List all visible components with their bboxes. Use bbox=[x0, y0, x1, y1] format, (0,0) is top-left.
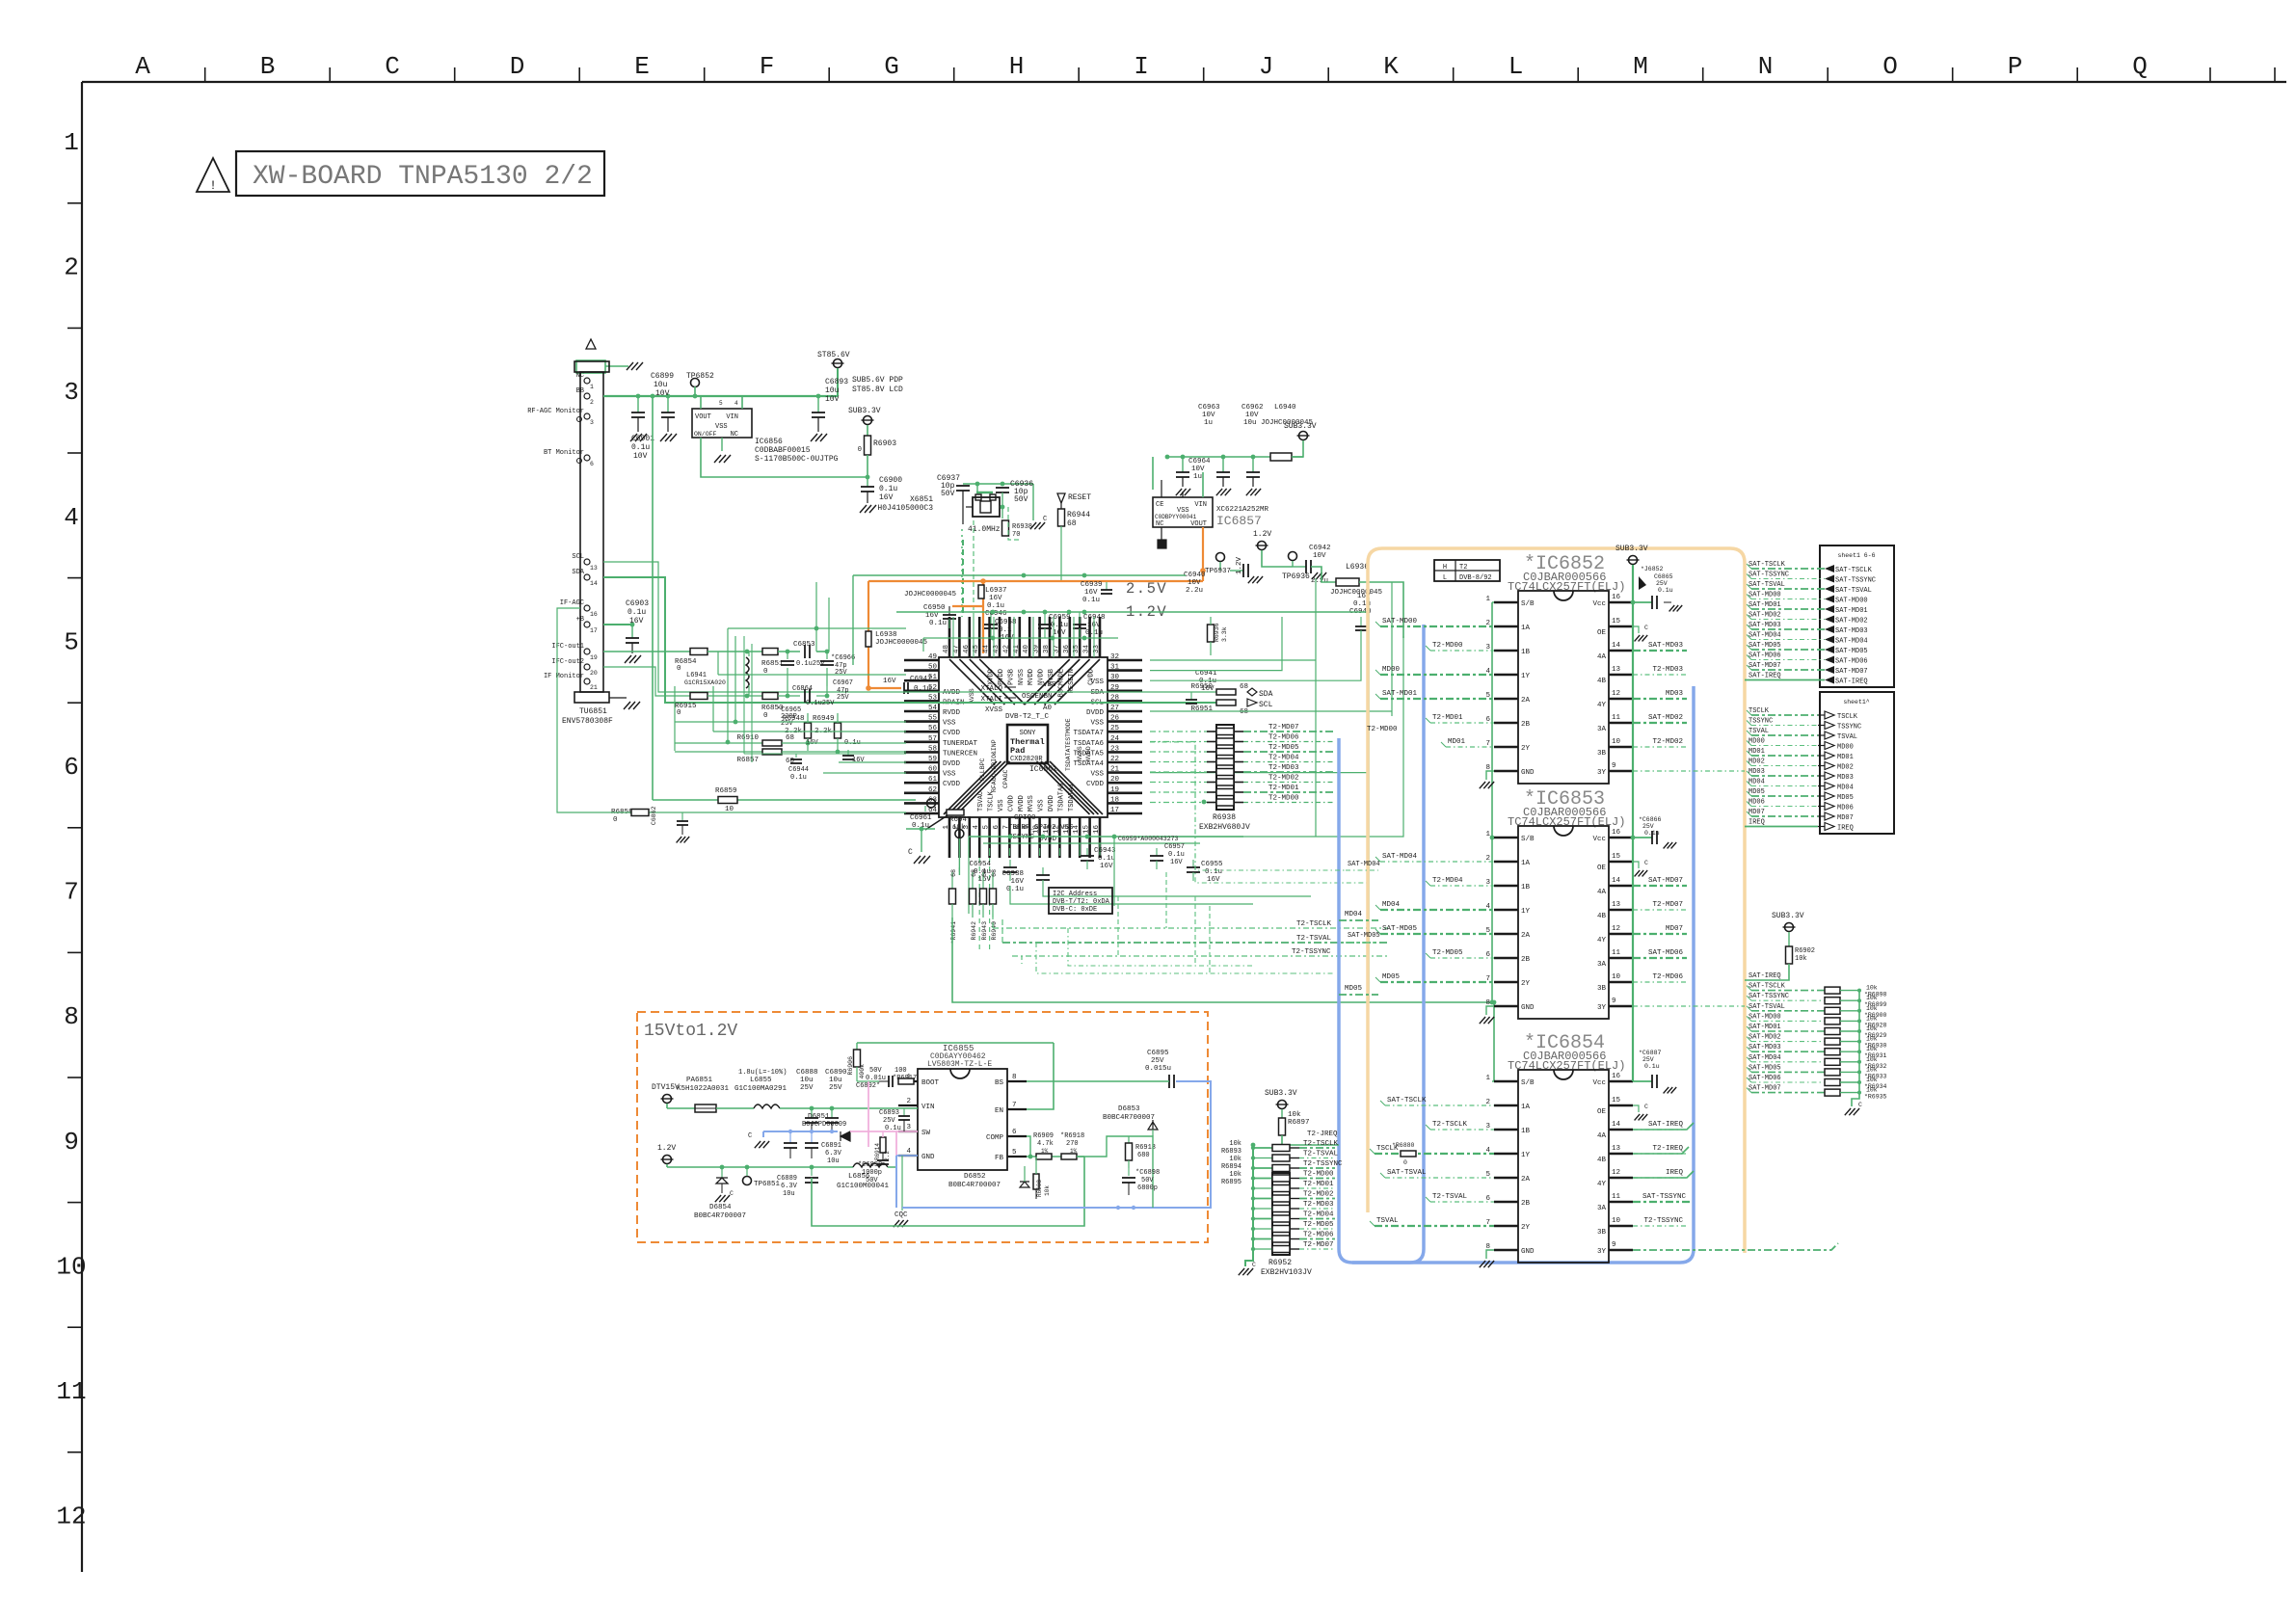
wire BS-EN loop top bbox=[857, 1042, 1054, 1044]
svg-text:SDA: SDA bbox=[1259, 690, 1273, 699]
svg-text:B0BC4R700007: B0BC4R700007 bbox=[948, 1182, 1001, 1189]
sheet1 box TS (to sheet) bbox=[1820, 692, 1894, 834]
svg-text:2Y: 2Y bbox=[1521, 980, 1531, 988]
blue wires SW filter bbox=[763, 1131, 838, 1132]
svg-text:TSDATATESTMODE: TSDATATESTMODE bbox=[1065, 718, 1072, 771]
connector pin 2 BB bbox=[584, 393, 590, 399]
svg-text:3B: 3B bbox=[1597, 750, 1607, 758]
svg-text:41.0MHz: 41.0MHz bbox=[968, 525, 1001, 534]
capacitor C6888 bbox=[811, 1108, 813, 1118]
svg-text:68: 68 bbox=[950, 869, 957, 877]
svg-text:680: 680 bbox=[1137, 1152, 1150, 1159]
svg-text:0.1u: 0.1u bbox=[631, 443, 650, 452]
svg-text:DTV15V: DTV15V bbox=[652, 1083, 680, 1092]
pin mark RF-AGC bbox=[577, 417, 582, 422]
svg-text:62: 62 bbox=[928, 786, 937, 794]
net SAT-TSVAL (sheet arrow) bbox=[1825, 585, 1834, 593]
inductor L6856 bbox=[853, 1163, 888, 1167]
svg-text:R6906: R6906 bbox=[847, 1056, 854, 1076]
svg-text:0.1u25V: 0.1u25V bbox=[806, 700, 835, 707]
svg-text:CE: CE bbox=[1156, 501, 1163, 509]
connector pin 16 IF-AGC bbox=[584, 605, 590, 611]
wire MD07 from IC6853 bbox=[1633, 933, 1687, 935]
svg-text:VIN: VIN bbox=[1194, 501, 1207, 509]
svg-text:N: N bbox=[1758, 52, 1774, 81]
svg-text:MD03: MD03 bbox=[1666, 690, 1684, 698]
svg-text:VSS: VSS bbox=[998, 799, 1005, 811]
svg-text:0.1u: 0.1u bbox=[987, 602, 1004, 610]
test point TP6937 bbox=[1216, 553, 1225, 562]
svg-text:MD00: MD00 bbox=[1749, 738, 1765, 746]
svg-text:38: 38 bbox=[1043, 645, 1051, 653]
svg-text:0.1: 0.1 bbox=[999, 626, 1012, 634]
capacitor C6901 bbox=[637, 396, 639, 412]
svg-text:ENV5780308F: ENV5780308F bbox=[562, 717, 613, 726]
svg-text:3: 3 bbox=[590, 419, 594, 426]
svg-text:C: C bbox=[1644, 625, 1648, 631]
svg-text:S-1170B500C-0UJTPG: S-1170B500C-0UJTPG bbox=[755, 455, 839, 464]
svg-text:C6889: C6889 bbox=[777, 1175, 797, 1183]
wire S/B bus vertical bbox=[1491, 602, 1493, 1002]
wire SAT-MD00 to IC6852 bbox=[1380, 625, 1494, 627]
svg-text:25: 25 bbox=[1110, 725, 1120, 732]
resistor R6918 270 bbox=[1061, 1154, 1077, 1159]
vertical green stubs left cluster bbox=[717, 652, 719, 675]
svg-text:SAT-MD07: SAT-MD07 bbox=[1749, 662, 1781, 670]
svg-text:NVSS: NVSS bbox=[1077, 746, 1083, 761]
svg-text:D6854: D6854 bbox=[709, 1204, 732, 1211]
svg-text:0: 0 bbox=[858, 446, 862, 454]
resistor *R6935 net SAT-MD07 bbox=[1751, 1092, 1825, 1094]
svg-text:16V: 16V bbox=[1170, 859, 1183, 866]
svg-text:1B: 1B bbox=[1521, 884, 1531, 891]
svg-text:MD07: MD07 bbox=[1837, 814, 1854, 822]
svg-text:10V: 10V bbox=[1245, 412, 1259, 419]
svg-text:R6936: R6936 bbox=[1214, 623, 1220, 642]
svg-text:SAT-MD06: SAT-MD06 bbox=[1648, 949, 1684, 957]
wire right-side rails bbox=[1150, 659, 1316, 661]
svg-text:4Y: 4Y bbox=[1597, 1181, 1607, 1188]
svg-text:1%: 1% bbox=[1041, 1148, 1049, 1155]
IC6854 pin 8 GND bbox=[1494, 1249, 1518, 1251]
svg-text:32: 32 bbox=[1110, 653, 1119, 661]
resistor R6936 70 bbox=[1002, 520, 1009, 536]
svg-text:2A: 2A bbox=[1521, 697, 1531, 705]
svg-text:16V: 16V bbox=[1201, 685, 1215, 693]
power terminal SUB3.3V (R6897) bbox=[1278, 1101, 1287, 1109]
svg-text:TSSYNC: TSSYNC bbox=[1749, 718, 1773, 726]
svg-text:70: 70 bbox=[1012, 531, 1020, 539]
wire +B rail y=411 bbox=[603, 395, 838, 397]
IC6854 pin 4 1Y bbox=[1494, 1153, 1518, 1155]
svg-text:T2-MD07: T2-MD07 bbox=[1652, 901, 1683, 909]
svg-text:T2-TSSYNC: T2-TSSYNC bbox=[1643, 1217, 1683, 1225]
svg-text:4: 4 bbox=[906, 1148, 911, 1156]
svg-text:OE: OE bbox=[1597, 865, 1607, 872]
test point TP6852 bbox=[691, 379, 700, 387]
svg-text:+B: +B bbox=[576, 616, 584, 624]
svg-text:GND: GND bbox=[921, 1154, 935, 1161]
connector pin 21 IF Monitor bbox=[584, 678, 590, 684]
svg-text:6800p: 6800p bbox=[1137, 1184, 1158, 1192]
svg-text:C6941: C6941 bbox=[1195, 670, 1217, 678]
svg-text:*R6918: *R6918 bbox=[1060, 1132, 1084, 1140]
svg-text:SUB3.3V: SUB3.3V bbox=[848, 407, 881, 415]
svg-text:4A: 4A bbox=[1597, 653, 1607, 661]
svg-text:C6891: C6891 bbox=[821, 1142, 841, 1150]
svg-text:14: 14 bbox=[1612, 1121, 1621, 1129]
resistor stack row T2-TSSYNC bbox=[1253, 1167, 1272, 1169]
svg-text:1Y: 1Y bbox=[1521, 673, 1531, 680]
svg-text:MD05: MD05 bbox=[1837, 794, 1854, 802]
svg-text:SAT-MD00: SAT-MD00 bbox=[1749, 1013, 1781, 1021]
svg-text:1.2V: 1.2V bbox=[1236, 556, 1243, 574]
svg-text:13: 13 bbox=[1612, 666, 1621, 674]
svg-text:0.1u: 0.1u bbox=[1205, 868, 1222, 876]
IC6852 OE ground bbox=[1633, 626, 1639, 633]
svg-text:XVDD: XVDD bbox=[988, 669, 996, 685]
svg-text:30: 30 bbox=[1110, 674, 1120, 681]
svg-text:C6900: C6900 bbox=[879, 476, 902, 485]
svg-text:R6894: R6894 bbox=[1221, 1163, 1241, 1171]
svg-text:SAT-TSVAL: SAT-TSVAL bbox=[1835, 587, 1872, 595]
capacitor C6968 47p bbox=[826, 652, 828, 659]
svg-text:SAT-MD04: SAT-MD04 bbox=[1749, 632, 1781, 640]
svg-text:44: 44 bbox=[983, 644, 991, 653]
svg-text:H: H bbox=[1009, 52, 1025, 81]
svg-text:SAT-MD01: SAT-MD01 bbox=[1749, 1024, 1781, 1031]
svg-text:C: C bbox=[1252, 1262, 1256, 1268]
3Y dashed IC6853 bbox=[1633, 1005, 1745, 1007]
fuse PA6851 bbox=[695, 1104, 716, 1112]
svg-text:PVDD: PVDD bbox=[998, 669, 1005, 685]
svg-text:S/B: S/B bbox=[1521, 836, 1535, 843]
svg-text:1Y: 1Y bbox=[1521, 908, 1531, 916]
svg-text:10k: 10k bbox=[1866, 1077, 1878, 1083]
wire rows to left pins bbox=[718, 674, 906, 676]
wire 1.2V rail bbox=[896, 611, 1369, 613]
svg-text:TSVAC: TSVAC bbox=[977, 791, 985, 811]
svg-text:T2-JREQ: T2-JREQ bbox=[1307, 1131, 1338, 1138]
green bus mesh below IC bbox=[968, 837, 970, 914]
ladder ground bus bbox=[1852, 990, 1859, 1106]
svg-text:16: 16 bbox=[1612, 594, 1621, 601]
svg-text:IREQ: IREQ bbox=[1666, 1169, 1684, 1177]
svg-text:2: 2 bbox=[64, 253, 79, 282]
IC6854 pin 6 2B bbox=[1494, 1201, 1518, 1203]
svg-text:BS: BS bbox=[995, 1079, 1004, 1087]
capacitor C6889 pair bbox=[811, 1131, 813, 1143]
svg-text:1A: 1A bbox=[1521, 1104, 1531, 1111]
reset net label RESET bbox=[1057, 493, 1065, 503]
net TSSYNC (sheet arrow) bbox=[1825, 722, 1834, 730]
svg-text:IC6857: IC6857 bbox=[1216, 514, 1262, 528]
svg-text:1: 1 bbox=[1485, 831, 1490, 838]
svg-text:10k: 10k bbox=[1866, 1036, 1878, 1043]
svg-text:SAT-MD05: SAT-MD05 bbox=[1835, 648, 1868, 655]
svg-text:9: 9 bbox=[1612, 998, 1616, 1005]
svg-text:TP6936: TP6936 bbox=[1282, 572, 1310, 581]
svg-text:25V: 25V bbox=[1151, 1057, 1164, 1065]
svg-text:59: 59 bbox=[928, 756, 937, 763]
svg-text:0.1u: 0.1u bbox=[879, 485, 897, 493]
wire T2-MD02 from IC6852 bbox=[1633, 746, 1687, 748]
svg-text:SAT-TSCLK: SAT-TSCLK bbox=[1387, 1097, 1427, 1104]
svg-text:1.8u(L=-10%): 1.8u(L=-10%) bbox=[738, 1069, 787, 1077]
svg-text:DVDD: DVDD bbox=[943, 760, 961, 768]
svg-text:T2-MD06: T2-MD06 bbox=[1652, 973, 1683, 981]
wire T2-MD05 to IC6853 bbox=[1430, 957, 1494, 959]
capacitor C6940 2.2u bbox=[1230, 570, 1243, 572]
svg-text:400k: 400k bbox=[859, 1064, 866, 1079]
svg-text:T2-MD00: T2-MD00 bbox=[1268, 795, 1299, 803]
svg-text:G1CR15XA020: G1CR15XA020 bbox=[684, 679, 726, 686]
wire bus below IC bbox=[969, 836, 1243, 838]
IC IC6854 body bbox=[1518, 1070, 1609, 1263]
resistor pack row T2-MD01 bbox=[1253, 1187, 1272, 1189]
svg-text:T2-IREQ: T2-IREQ bbox=[1652, 1145, 1683, 1153]
svg-text:L: L bbox=[1508, 52, 1524, 81]
wire 2.5V rail bbox=[853, 574, 1186, 576]
svg-text:10u: 10u bbox=[825, 386, 840, 395]
title box XW-BOARD TNPA5130 2/2 bbox=[236, 151, 604, 196]
regulator IC6855 body bbox=[918, 1069, 1007, 1170]
svg-text:T2-MD05: T2-MD05 bbox=[1268, 744, 1299, 752]
svg-text:60: 60 bbox=[928, 766, 938, 774]
svg-text:4Y: 4Y bbox=[1597, 937, 1607, 945]
wire T2-TSCLK to IC6854 bbox=[1430, 1129, 1494, 1131]
svg-text:10k: 10k bbox=[1866, 1087, 1878, 1094]
svg-text:SAT-MD06: SAT-MD06 bbox=[1749, 1075, 1781, 1082]
svg-text:56: 56 bbox=[928, 725, 938, 732]
blue wire C6895 to bottom bbox=[902, 1081, 1211, 1208]
capacitor C6890 bbox=[831, 1108, 833, 1118]
svg-text:1: 1 bbox=[943, 825, 950, 830]
wire IFC-out1 row bbox=[603, 651, 690, 652]
svg-text:sheet1 6-6: sheet1 6-6 bbox=[1837, 552, 1875, 559]
svg-text:AVDD: AVDD bbox=[943, 689, 961, 697]
svg-text:25V: 25V bbox=[837, 694, 849, 702]
svg-text:2B: 2B bbox=[1521, 721, 1531, 729]
wire TSCLK to IC6854 bbox=[1375, 1153, 1494, 1155]
regulator IC6856 bbox=[692, 409, 752, 438]
connector pin 17 +B bbox=[584, 622, 590, 627]
svg-text:15: 15 bbox=[1612, 618, 1621, 625]
IC6852 pin 4 1Y bbox=[1494, 674, 1518, 676]
svg-text:SAT-IREQ: SAT-IREQ bbox=[1749, 673, 1781, 680]
IC6853 pin 5 2A bbox=[1494, 933, 1518, 935]
svg-text:27: 27 bbox=[1110, 705, 1119, 712]
svg-text:SAT-MD05: SAT-MD05 bbox=[1348, 932, 1380, 940]
svg-text:T2-TSVAL: T2-TSVAL bbox=[1303, 1151, 1339, 1158]
net SAT-TSCLK (sheet arrow) bbox=[1825, 565, 1834, 572]
svg-text:L6937: L6937 bbox=[985, 587, 1007, 595]
svg-text:BSCMODE: BSCMODE bbox=[1057, 669, 1065, 697]
svg-text:ON/OFF: ON/OFF bbox=[694, 431, 717, 438]
resistor pack R6952 frame bbox=[1272, 1173, 1290, 1255]
svg-text:EXB2HV103JV: EXB2HV103JV bbox=[1261, 1268, 1312, 1277]
IC6857 NC stub bbox=[1161, 527, 1162, 540]
svg-text:CVDD: CVDD bbox=[943, 781, 961, 788]
svg-text:IF Monitor: IF Monitor bbox=[544, 673, 584, 680]
svg-text:SAT-MD00: SAT-MD00 bbox=[1749, 592, 1781, 599]
svg-text:Vcc: Vcc bbox=[1592, 1079, 1606, 1087]
svg-text:T2-MD00: T2-MD00 bbox=[1367, 726, 1398, 733]
svg-text:3Y: 3Y bbox=[1597, 1248, 1607, 1256]
svg-text:19: 19 bbox=[590, 654, 598, 661]
svg-text:2B: 2B bbox=[1521, 956, 1531, 964]
IC6855 pin 1 BOOT bbox=[898, 1080, 918, 1082]
IC6855 pin 3 SW bbox=[898, 1131, 918, 1132]
power terminal SUB3.3V (R6902) bbox=[1785, 923, 1794, 932]
svg-text:C6862: C6862 bbox=[651, 806, 657, 825]
svg-text:10V: 10V bbox=[1313, 552, 1326, 560]
svg-text:SCL: SCL bbox=[1259, 701, 1273, 709]
IC6852 pin 2 1A bbox=[1494, 625, 1518, 627]
svg-text:CVDD: CVDD bbox=[1007, 795, 1015, 811]
IC6852 pin 5 2A bbox=[1494, 698, 1518, 700]
svg-text:PLLBPC: PLLBPC bbox=[979, 758, 986, 781]
net SAT-MD06 (sheet arrow) bbox=[1825, 656, 1834, 664]
svg-text:SAT-MD02: SAT-MD02 bbox=[1749, 612, 1781, 620]
svg-text:23: 23 bbox=[1110, 745, 1120, 753]
svg-text:D6853: D6853 bbox=[1118, 1105, 1140, 1113]
svg-text:3A: 3A bbox=[1597, 961, 1607, 969]
diode D6851 bbox=[841, 1131, 850, 1141]
power terminal ST85.6V bbox=[834, 359, 842, 368]
IC6853 pin 11 3A bbox=[1609, 957, 1633, 959]
svg-text:C6957: C6957 bbox=[1164, 843, 1185, 851]
svg-text:68: 68 bbox=[1240, 708, 1248, 716]
resistor R6915 bbox=[690, 693, 707, 700]
IC6853 pin 7 2Y bbox=[1494, 981, 1518, 983]
IC6854 pin 3 1B bbox=[1494, 1129, 1518, 1131]
svg-text:10k: 10k bbox=[1866, 995, 1878, 1001]
svg-text:8: 8 bbox=[1012, 1074, 1017, 1081]
wire 15V input rail bbox=[667, 1107, 695, 1109]
resistor *R6928 net SAT-MD00 bbox=[1751, 1020, 1825, 1022]
svg-text:40: 40 bbox=[1023, 644, 1030, 653]
svg-text:L6941: L6941 bbox=[686, 672, 707, 679]
net TSVAL (sheet arrow) bbox=[1825, 732, 1834, 739]
svg-text:SAT-TSCLK: SAT-TSCLK bbox=[1749, 983, 1786, 991]
IC6853 pin 16 Vcc bbox=[1609, 837, 1633, 838]
resistor R6897 10k bbox=[1279, 1118, 1286, 1135]
svg-text:R6952: R6952 bbox=[1268, 1259, 1292, 1267]
svg-text:15: 15 bbox=[1612, 853, 1621, 861]
svg-text:16V: 16V bbox=[1010, 878, 1024, 886]
capacitor C6944 bbox=[795, 754, 797, 758]
svg-text:13: 13 bbox=[1612, 901, 1621, 909]
svg-text:54: 54 bbox=[928, 705, 938, 712]
svg-text:DVDD: DVDD bbox=[1086, 709, 1105, 717]
wire GND pin4 bbox=[896, 1155, 918, 1157]
IC6854 pin 2 1A bbox=[1494, 1104, 1518, 1106]
dashed stubs below pins 4 5 bbox=[978, 858, 980, 949]
svg-text:0.015u: 0.015u bbox=[1145, 1065, 1171, 1073]
svg-text:51: 51 bbox=[928, 674, 938, 681]
zener D6853 symbol bbox=[1148, 1120, 1158, 1130]
svg-text:XW-BOARD TNPA5130 2/2: XW-BOARD TNPA5130 2/2 bbox=[253, 162, 593, 192]
svg-text:57: 57 bbox=[928, 735, 937, 743]
svg-text:21: 21 bbox=[590, 684, 598, 691]
svg-text:BB: BB bbox=[576, 387, 584, 395]
svg-text:9: 9 bbox=[1612, 1241, 1616, 1249]
svg-text:G1C100M00041: G1C100M00041 bbox=[837, 1183, 890, 1190]
svg-text:TSCLK: TSCLK bbox=[1837, 713, 1858, 721]
svg-text:*C6866: *C6866 bbox=[1639, 816, 1662, 823]
svg-text:C6964: C6964 bbox=[1188, 458, 1211, 466]
power terminal 1.2V (TP6936) bbox=[1258, 542, 1267, 550]
svg-text:1: 1 bbox=[1485, 596, 1490, 603]
wire FB bottom loop bbox=[812, 1157, 1084, 1226]
svg-text:49: 49 bbox=[928, 653, 937, 661]
IC6853 pin 4 1Y bbox=[1494, 909, 1518, 911]
IC6854 pin 9 3Y bbox=[1609, 1249, 1633, 1251]
net IREQ (sheet arrow) bbox=[1825, 823, 1834, 831]
IC6852 pin 15 OE bbox=[1609, 625, 1633, 627]
svg-text:11: 11 bbox=[1612, 949, 1621, 957]
svg-text:C6890: C6890 bbox=[825, 1069, 847, 1077]
svg-text:C6963: C6963 bbox=[1198, 404, 1220, 412]
IC IC6853 body bbox=[1518, 826, 1609, 1019]
dashed rows below IC right bbox=[1150, 742, 1369, 883]
svg-text:E: E bbox=[634, 52, 650, 81]
svg-text:T2-MD00: T2-MD00 bbox=[1432, 642, 1463, 650]
wire SAT-MD05 to IC6853 bbox=[1380, 933, 1494, 935]
svg-text:SAT-MD03: SAT-MD03 bbox=[1835, 627, 1868, 635]
svg-text:C6903: C6903 bbox=[626, 599, 649, 608]
wire SAT-MD01 to IC6852 bbox=[1380, 698, 1494, 700]
svg-text:4.7k: 4.7k bbox=[1037, 1140, 1054, 1148]
svg-text:10u: 10u bbox=[829, 1077, 842, 1084]
svg-text:MD01: MD01 bbox=[1837, 754, 1854, 761]
svg-text:M: M bbox=[1633, 52, 1648, 81]
svg-text:B0JCPD00009: B0JCPD00009 bbox=[802, 1121, 846, 1129]
svg-text:10u: 10u bbox=[827, 1157, 840, 1165]
svg-text:37: 37 bbox=[1053, 645, 1060, 653]
svg-text:C6938: C6938 bbox=[1001, 870, 1024, 878]
dashed T2-MD labels to blue bus bbox=[1243, 731, 1335, 732]
svg-text:TBERR_GPIO2 VSS: TBERR_GPIO2 VSS bbox=[1008, 824, 1074, 832]
IC6854 pin 13 4B bbox=[1609, 1153, 1633, 1155]
svg-text:2Y: 2Y bbox=[1521, 745, 1531, 753]
svg-text:MD05: MD05 bbox=[1382, 973, 1401, 981]
svg-text:10k: 10k bbox=[1866, 1015, 1878, 1022]
svg-text:3B: 3B bbox=[1597, 985, 1607, 993]
IC6853 pin 1 S/B bbox=[1494, 837, 1518, 838]
svg-text:R6902: R6902 bbox=[1795, 947, 1815, 955]
svg-text:10k: 10k bbox=[1866, 1066, 1878, 1073]
junction dots on rails bbox=[991, 610, 996, 615]
svg-text:TSCLK: TSCLK bbox=[1749, 707, 1770, 715]
IC6852 pin 8 GND bbox=[1494, 770, 1518, 772]
svg-text:12: 12 bbox=[1612, 1169, 1620, 1177]
wire rail y662 bbox=[923, 637, 1118, 639]
3Y dashed IC6852 bbox=[1633, 770, 1745, 772]
svg-text:C: C bbox=[1043, 516, 1047, 523]
svg-text:Q: Q bbox=[2132, 52, 2148, 81]
svg-text:0.1u: 0.1u bbox=[1644, 1063, 1660, 1070]
svg-text:C6958: C6958 bbox=[995, 619, 1017, 626]
IC6852 pin 13 4B bbox=[1609, 674, 1633, 676]
net SAT-MD04 (sheet arrow) bbox=[1825, 636, 1834, 644]
svg-text:14: 14 bbox=[1073, 825, 1081, 835]
svg-text:C6893: C6893 bbox=[825, 378, 848, 386]
svg-text:R6895: R6895 bbox=[1221, 1179, 1241, 1186]
svg-text:A: A bbox=[135, 52, 150, 81]
svg-text:17: 17 bbox=[590, 627, 598, 634]
